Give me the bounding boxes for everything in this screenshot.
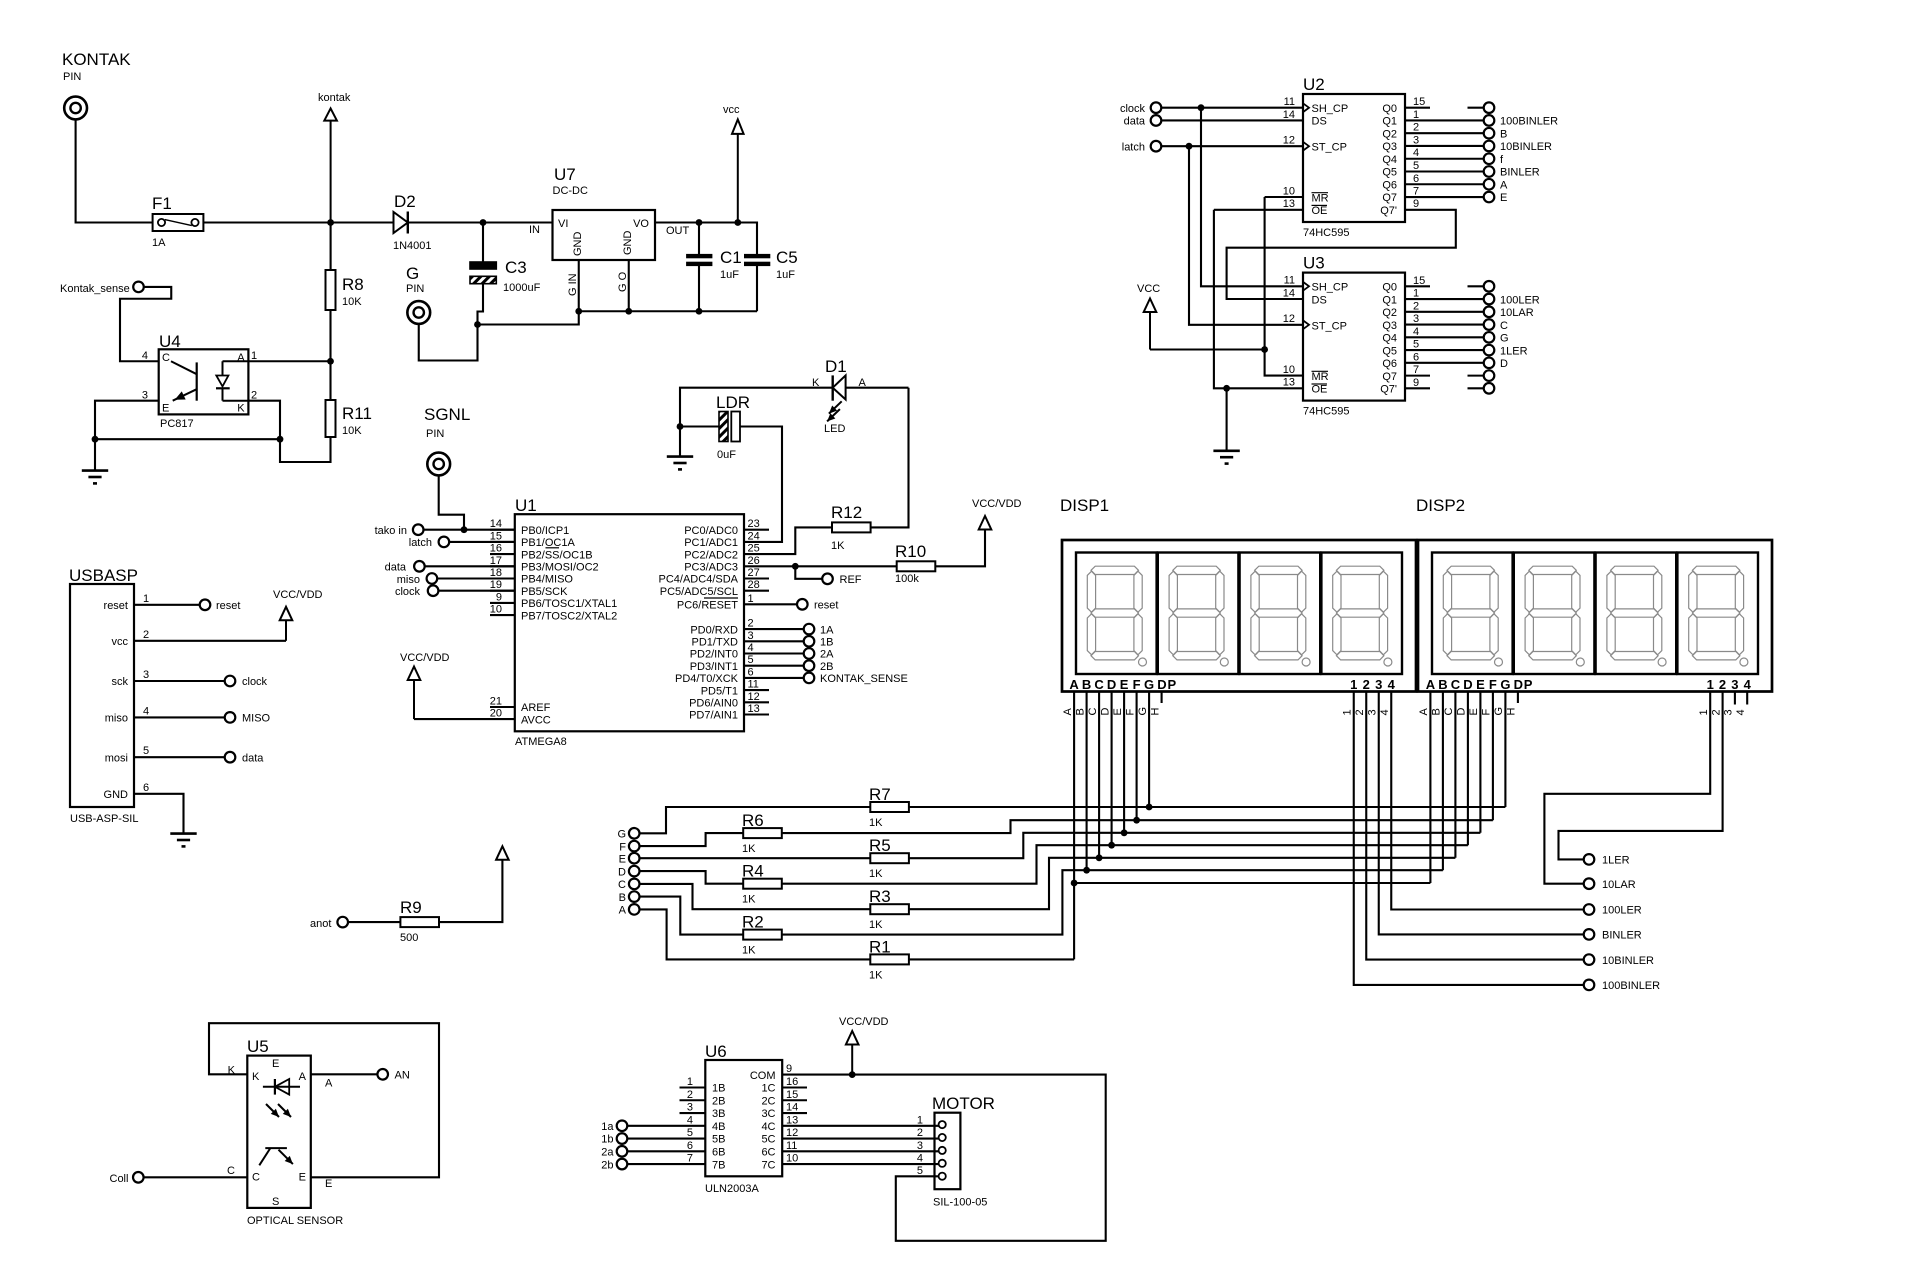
svg-text:LED: LED: [824, 423, 845, 435]
wire U6 6C to MOTOR: [782, 1150, 938, 1152]
wire DISP1 pin E: [1112, 692, 1124, 833]
svg-text:2: 2: [1354, 709, 1366, 715]
svg-text:1LER: 1LER: [1500, 345, 1528, 357]
power arrow VCC/VDD AVCC: [400, 652, 515, 719]
svg-text:10BINLER: 10BINLER: [1500, 141, 1552, 153]
svg-text:D: D: [1514, 677, 1523, 692]
svg-text:1C: 1C: [761, 1083, 775, 1095]
wire DISP2 pin F: [1481, 692, 1493, 821]
svg-text:BINLER: BINLER: [1602, 930, 1642, 942]
svg-text:vcc: vcc: [112, 636, 129, 648]
svg-text:27: 27: [748, 567, 760, 579]
pin BINLER: [1584, 929, 1642, 941]
pin Q7 net U3: [1468, 370, 1495, 381]
pin reset: [744, 599, 838, 612]
svg-text:PIN: PIN: [426, 428, 444, 440]
svg-text:2: 2: [1413, 122, 1419, 134]
wire DISP1 pin 1: [1342, 692, 1584, 985]
pin Coll: [110, 1172, 248, 1185]
svg-text:PD1/TXD: PD1/TXD: [692, 637, 739, 649]
svg-text:PB7/TOSC2/XTAL2: PB7/TOSC2/XTAL2: [521, 610, 617, 622]
pin 1A: [744, 624, 834, 637]
svg-text:COM: COM: [750, 1070, 776, 1082]
svg-text:VCC/VDD: VCC/VDD: [839, 1016, 889, 1028]
svg-text:100LER: 100LER: [1602, 905, 1642, 917]
svg-text:PC3/ADC3: PC3/ADC3: [684, 562, 738, 574]
junction A node: [327, 358, 334, 365]
svg-text:B: B: [1431, 708, 1443, 715]
svg-text:DS: DS: [1312, 294, 1327, 306]
svg-text:ULN2003A: ULN2003A: [705, 1183, 759, 1195]
svg-text:6B: 6B: [712, 1147, 725, 1159]
pin 10BINLER: [1584, 954, 1654, 967]
svg-text:data: data: [385, 562, 407, 574]
svg-text:1K: 1K: [742, 843, 756, 855]
junction MR VCC: [1261, 346, 1268, 353]
svg-text:G: G: [1137, 707, 1149, 716]
svg-text:4: 4: [142, 350, 148, 362]
wire U5 K loop to E: [209, 1023, 439, 1177]
resistor R7 1K: [640, 785, 1506, 833]
svg-text:B: B: [1082, 677, 1091, 692]
wire DISP1 pin B: [1074, 692, 1086, 871]
svg-text:1uF: 1uF: [776, 269, 795, 281]
pin reset usbasp: [134, 600, 240, 613]
svg-text:1K: 1K: [869, 868, 883, 880]
svg-text:VCC/VDD: VCC/VDD: [273, 589, 323, 601]
svg-text:PIN: PIN: [63, 71, 81, 83]
svg-text:Q1: Q1: [1382, 294, 1397, 306]
svg-text:PC6/RESET: PC6/RESET: [677, 600, 738, 612]
pin B U2: [1405, 128, 1507, 141]
resistor R5 1K: [640, 833, 1481, 880]
svg-text:100BINLER: 100BINLER: [1500, 116, 1558, 128]
svg-text:1: 1: [748, 593, 754, 605]
power arrow vcc: [723, 104, 744, 223]
svg-text:E: E: [325, 1178, 332, 1190]
svg-text:AN: AN: [395, 1070, 410, 1082]
pin 100LER: [1584, 904, 1642, 917]
wire DISP2 pin A: [1418, 692, 1430, 884]
wire U7 VO to OUT net: [655, 223, 757, 255]
svg-text:PB2/SS/OC1B: PB2/SS/OC1B: [521, 549, 593, 561]
svg-text:D: D: [1107, 677, 1116, 692]
pin segment A: [619, 904, 640, 916]
svg-text:PC2/ADC2: PC2/ADC2: [684, 549, 738, 561]
pin 1LER U3: [1405, 345, 1528, 357]
wire F1 to D2: [203, 221, 393, 223]
svg-text:P: P: [1167, 677, 1176, 692]
svg-text:4: 4: [1379, 709, 1391, 715]
svg-text:MR: MR: [1312, 192, 1329, 204]
stub DISP2 pin H: [1506, 692, 1518, 716]
svg-text:11: 11: [1284, 96, 1295, 108]
led D1: [812, 357, 867, 435]
svg-text:G: G: [1500, 677, 1510, 692]
dc-dc converter U7: [553, 165, 656, 311]
svg-text:reset: reset: [104, 600, 128, 612]
svg-text:VCC/VDD: VCC/VDD: [972, 498, 1022, 510]
junction LDR gnd: [677, 423, 684, 430]
svg-text:9: 9: [1413, 198, 1419, 210]
svg-text:12: 12: [748, 691, 760, 703]
svg-text:G: G: [406, 264, 419, 283]
svg-text:PB0/ICP1: PB0/ICP1: [521, 525, 569, 537]
svg-text:D2: D2: [394, 192, 416, 211]
svg-text:PC817: PC817: [160, 418, 194, 430]
resistor R8 10K: [326, 223, 364, 362]
svg-text:2: 2: [1710, 709, 1722, 715]
svg-text:tako in: tako in: [375, 525, 407, 537]
terminal KONTAK: [62, 50, 131, 119]
wire DISP2 pin C: [1443, 692, 1455, 858]
wire D1 anode: [846, 387, 909, 389]
svg-text:10: 10: [786, 1153, 798, 1165]
pin Kontak_sense: [60, 282, 144, 295]
svg-text:10: 10: [1283, 364, 1295, 376]
stub U6 input: [680, 1112, 706, 1114]
svg-text:10K: 10K: [342, 425, 362, 437]
svg-text:data: data: [242, 752, 264, 764]
pin G U3: [1405, 332, 1509, 345]
svg-text:A: A: [299, 1071, 307, 1083]
pin tako in: [375, 524, 515, 537]
svg-text:Q2: Q2: [1382, 128, 1397, 140]
resistor R2 1K: [640, 870, 1443, 956]
svg-text:PD0/RXD: PD0/RXD: [690, 624, 738, 636]
wire GND usbasp: [134, 794, 184, 833]
power arrow VCC/VDD U6: [839, 1016, 889, 1075]
pin segment E: [619, 853, 640, 866]
svg-text:6: 6: [1413, 173, 1419, 185]
svg-text:23: 23: [748, 518, 760, 530]
svg-text:SIL-100-05: SIL-100-05: [933, 1197, 987, 1209]
wire DISP2 pin 2: [1559, 692, 1723, 860]
svg-text:G: G: [1500, 333, 1509, 345]
junction rail GO: [625, 308, 632, 315]
pin AN: [311, 1069, 410, 1082]
wire latch U2 to U3: [1189, 146, 1303, 325]
svg-text:U2: U2: [1303, 75, 1325, 94]
svg-text:F: F: [1133, 677, 1141, 692]
svg-text:DS: DS: [1312, 116, 1327, 128]
svg-text:SH_CP: SH_CP: [1312, 103, 1349, 115]
wire node to U7 VI: [483, 221, 553, 223]
svg-text:R4: R4: [742, 862, 764, 881]
svg-text:REF: REF: [840, 574, 862, 586]
svg-text:U4: U4: [159, 332, 181, 351]
stub DISP1 pin H: [1149, 692, 1161, 716]
svg-text:14: 14: [786, 1102, 798, 1114]
svg-text:15: 15: [490, 530, 502, 542]
wire DISP2 pin G: [1493, 692, 1505, 808]
wire OE bus: [1214, 210, 1303, 388]
svg-text:5: 5: [748, 654, 754, 666]
wire SGNL to tako in: [439, 475, 464, 529]
svg-text:clock: clock: [1120, 103, 1146, 115]
svg-text:C: C: [1443, 708, 1455, 716]
stub U6 input: [680, 1099, 706, 1101]
pin clock U2: [1120, 102, 1303, 115]
svg-text:C: C: [1087, 708, 1099, 716]
wire A net right: [1074, 882, 1430, 884]
svg-text:VI: VI: [558, 218, 568, 230]
pin data U2: [1124, 115, 1303, 128]
svg-text:1a: 1a: [601, 1121, 614, 1133]
pin Q0 net U2: [1468, 102, 1495, 113]
svg-text:3: 3: [1375, 677, 1382, 692]
terminal G PIN: [406, 264, 430, 324]
svg-text:PD5/T1: PD5/T1: [701, 685, 738, 697]
svg-text:3: 3: [1731, 677, 1738, 692]
svg-text:G: G: [1144, 677, 1154, 692]
connector MOTOR SIL-100-05: [932, 1094, 995, 1209]
svg-text:PB6/TOSC1/XTAL1: PB6/TOSC1/XTAL1: [521, 598, 617, 610]
wire DISP1 pin F: [1124, 692, 1136, 821]
pin A U2: [1405, 179, 1508, 192]
svg-text:7C: 7C: [761, 1159, 775, 1171]
resistor R11 10K: [326, 361, 372, 437]
svg-text:kontak: kontak: [318, 92, 351, 104]
svg-text:1N4001: 1N4001: [393, 240, 432, 252]
junction vcc stem: [734, 219, 741, 226]
svg-text:1: 1: [1413, 109, 1419, 121]
display DISP1: [1060, 496, 1416, 692]
pin KONTAK_SENSE: [744, 673, 908, 685]
svg-text:OE: OE: [1312, 384, 1328, 396]
svg-text:K: K: [812, 377, 820, 389]
pin 100BINLER U2: [1405, 115, 1558, 128]
svg-text:E: E: [1468, 708, 1480, 715]
svg-text:R2: R2: [742, 913, 764, 932]
wire U4 pin1 to R8/R11 node: [248, 360, 330, 362]
wire DISP2 pin 1: [1544, 692, 1710, 884]
svg-text:74HC595: 74HC595: [1303, 406, 1349, 418]
svg-text:14: 14: [1283, 287, 1295, 299]
svg-text:3: 3: [1413, 134, 1419, 146]
svg-text:F: F: [1489, 677, 1497, 692]
svg-text:anot: anot: [310, 918, 331, 930]
svg-text:Q5: Q5: [1382, 167, 1397, 179]
svg-text:10: 10: [490, 604, 502, 616]
svg-text:4: 4: [1744, 677, 1752, 692]
svg-text:2: 2: [1363, 677, 1370, 692]
pin segment C: [618, 879, 639, 891]
svg-text:12: 12: [786, 1127, 798, 1139]
svg-text:19: 19: [490, 579, 502, 591]
svg-text:OUT: OUT: [666, 225, 690, 237]
fuse F1: [152, 194, 203, 249]
pin f U2: [1405, 153, 1504, 166]
svg-text:5C: 5C: [761, 1134, 775, 1146]
svg-text:D: D: [1099, 708, 1111, 716]
pin 10LAR: [1584, 878, 1636, 891]
svg-text:D: D: [1157, 677, 1166, 692]
svg-text:2: 2: [748, 618, 754, 630]
svg-text:mosi: mosi: [105, 752, 128, 764]
svg-text:11: 11: [748, 679, 759, 691]
junction C1 top: [696, 219, 703, 226]
svg-text:Q6: Q6: [1382, 179, 1397, 191]
svg-text:1A: 1A: [152, 237, 166, 249]
pin E U2: [1405, 192, 1507, 205]
svg-text:A: A: [1500, 179, 1508, 191]
wire U2 Q7apos to U3 DS: [1227, 210, 1456, 299]
svg-text:PB4/MISO: PB4/MISO: [521, 574, 573, 586]
svg-text:BINLER: BINLER: [1500, 167, 1540, 179]
svg-text:D: D: [1456, 708, 1468, 716]
svg-text:GND: GND: [622, 231, 634, 256]
svg-text:E: E: [272, 1058, 279, 1070]
wire DISP2 pin D: [1456, 692, 1468, 846]
junction rail C1: [696, 308, 703, 315]
ground symbol U3: [1226, 388, 1228, 450]
svg-text:16: 16: [490, 543, 502, 555]
svg-text:1K: 1K: [742, 894, 756, 906]
svg-text:miso: miso: [105, 713, 128, 725]
svg-text:Q3: Q3: [1382, 320, 1397, 332]
pin clock usbasp: [134, 676, 268, 689]
svg-text:4: 4: [1735, 709, 1747, 715]
wire ground bus to K node: [95, 438, 280, 440]
svg-text:18: 18: [490, 567, 502, 579]
svg-text:2: 2: [687, 1089, 693, 1101]
svg-text:3: 3: [748, 630, 754, 642]
svg-text:1K: 1K: [742, 945, 756, 957]
junction K gnd: [277, 436, 284, 443]
junction latch: [1186, 143, 1193, 150]
svg-text:U5: U5: [247, 1037, 269, 1056]
pin 2a: [601, 1146, 705, 1159]
svg-text:ST_CP: ST_CP: [1312, 320, 1347, 332]
svg-text:reset: reset: [216, 600, 240, 612]
svg-text:C: C: [227, 1165, 235, 1177]
power arrow VCC/VDD R10: [972, 498, 1022, 530]
svg-text:PC0/ADC0: PC0/ADC0: [684, 525, 738, 537]
wire U6 4C to MOTOR: [782, 1125, 938, 1127]
svg-text:11: 11: [1284, 275, 1295, 287]
pin Q0 net U3: [1468, 281, 1495, 292]
wire DISP1 pin A: [1062, 692, 1074, 960]
resistor R6 1K: [640, 811, 1493, 855]
svg-text:100k: 100k: [895, 573, 919, 585]
resistor R12 1K: [744, 388, 909, 554]
svg-text:C: C: [1094, 677, 1104, 692]
svg-text:1: 1: [143, 593, 149, 605]
svg-text:1A: 1A: [820, 624, 834, 636]
svg-text:B: B: [619, 892, 626, 904]
svg-text:G IN: G IN: [567, 273, 579, 296]
svg-text:12: 12: [1283, 135, 1295, 147]
wire G terminal to gnd node: [419, 324, 478, 361]
svg-text:7: 7: [1413, 186, 1419, 198]
stub DISP2 pin 3: [1723, 692, 1735, 716]
pin 1B: [744, 636, 833, 649]
svg-text:U3: U3: [1303, 254, 1325, 273]
optical sensor U5: [227, 1037, 343, 1227]
pin D U3: [1405, 358, 1508, 371]
svg-text:OE: OE: [1312, 205, 1328, 217]
svg-text:USB-ASP-SIL: USB-ASP-SIL: [70, 813, 138, 825]
svg-text:6: 6: [1413, 351, 1419, 363]
pin miso: [397, 573, 515, 586]
svg-text:10LAR: 10LAR: [1500, 307, 1534, 319]
svg-text:2: 2: [1413, 300, 1419, 312]
svg-text:U7: U7: [554, 165, 576, 184]
svg-text:5B: 5B: [712, 1134, 725, 1146]
svg-text:VO: VO: [633, 218, 649, 230]
svg-text:Q4: Q4: [1382, 333, 1397, 345]
svg-text:1: 1: [1342, 709, 1354, 715]
capacitor C5 1uF: [745, 248, 798, 311]
svg-text:G: G: [1493, 707, 1505, 716]
wire DISP1 pin C: [1087, 692, 1099, 858]
svg-text:13: 13: [1283, 198, 1295, 210]
pin segment D: [618, 866, 639, 879]
resistor R4 1K: [640, 845, 1468, 906]
svg-text:E: E: [299, 1172, 306, 1184]
svg-text:A: A: [325, 1078, 333, 1090]
svg-text:2A: 2A: [820, 649, 834, 661]
svg-text:A: A: [619, 905, 627, 917]
svg-text:Coll: Coll: [110, 1173, 129, 1185]
svg-text:14: 14: [1283, 109, 1295, 121]
svg-text:A: A: [1062, 708, 1074, 716]
svg-text:6: 6: [143, 782, 149, 794]
svg-text:7: 7: [1413, 364, 1419, 376]
microcontroller U1 ATMEGA8: [490, 496, 769, 748]
pin 1a: [601, 1120, 705, 1133]
svg-text:1: 1: [1707, 677, 1714, 692]
svg-text:latch: latch: [1122, 142, 1145, 154]
svg-text:G: G: [617, 829, 626, 841]
svg-text:100LER: 100LER: [1500, 294, 1540, 306]
svg-text:F1: F1: [152, 194, 172, 213]
svg-text:74HC595: 74HC595: [1303, 227, 1349, 239]
svg-text:MISO: MISO: [242, 713, 271, 725]
wire U4 pin2 to R11: [248, 401, 330, 462]
svg-text:PD7/AIN1: PD7/AIN1: [689, 710, 738, 722]
display DISP2: [1416, 496, 1772, 692]
junction node IN: [480, 219, 487, 226]
svg-text:C: C: [1451, 677, 1461, 692]
svg-text:1b: 1b: [601, 1134, 613, 1146]
driver U6 ULN2003A: [687, 1042, 798, 1195]
svg-text:0uF: 0uF: [717, 449, 736, 461]
pin MISO usbasp: [134, 712, 271, 724]
svg-text:1LER: 1LER: [1602, 855, 1630, 867]
svg-text:C: C: [618, 879, 626, 891]
svg-text:F: F: [1481, 709, 1493, 716]
svg-text:2a: 2a: [601, 1147, 614, 1159]
svg-text:E: E: [162, 403, 169, 415]
pin latch: [409, 537, 515, 549]
terminal SGNL PIN: [424, 405, 470, 475]
svg-text:R1: R1: [869, 937, 891, 956]
svg-text:C5: C5: [776, 248, 798, 267]
svg-text:7B: 7B: [712, 1159, 725, 1171]
svg-text:latch: latch: [409, 537, 432, 549]
svg-text:4: 4: [687, 1114, 693, 1126]
svg-text:VCC/VDD: VCC/VDD: [400, 652, 450, 664]
svg-text:500: 500: [400, 932, 418, 944]
svg-text:R6: R6: [742, 811, 764, 830]
svg-text:4: 4: [917, 1153, 923, 1165]
svg-text:U1: U1: [515, 496, 537, 515]
svg-text:3: 3: [917, 1140, 923, 1152]
svg-text:IN: IN: [529, 224, 540, 236]
power arrow VCC/VDD usbasp: [273, 589, 323, 641]
